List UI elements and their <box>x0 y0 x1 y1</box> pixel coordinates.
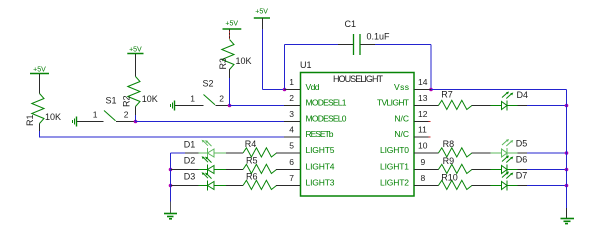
wire net LIGHT5 from bus to D1 <box>171 152 199 154</box>
wire S2 pin 2 to junction <box>216 105 230 107</box>
wire R10 to D7 <box>472 185 491 187</box>
wire R1 bottom lead <box>39 124 41 132</box>
switch S2 <box>190 79 224 105</box>
power +5V P2 above R2 <box>127 47 143 54</box>
wire bus to D2 <box>171 169 199 171</box>
junction D3/bus <box>169 184 173 188</box>
U1 pin 10 LIGHT0 <box>380 141 431 156</box>
wire R6 to U1 pin 7 <box>276 185 285 187</box>
svg-text:RESETb: RESETb <box>306 129 334 139</box>
resistor R2 <box>121 77 157 108</box>
wire net LIGHT2 to R10 <box>431 185 439 187</box>
svg-text:TVLIGHT: TVLIGHT <box>377 98 409 108</box>
resistor R1 <box>25 94 61 127</box>
wire R1 top lead <box>39 74 41 94</box>
svg-text:HOUSELIGHT: HOUSELIGHT <box>333 74 384 84</box>
svg-text:Vdd: Vdd <box>306 82 320 92</box>
junction D7/bus <box>565 184 569 188</box>
wire R2 bottom lead <box>135 107 137 122</box>
svg-text:4: 4 <box>289 125 294 135</box>
svg-text:LIGHT5: LIGHT5 <box>306 145 335 155</box>
svg-text:D3: D3 <box>184 172 196 182</box>
svg-text:3: 3 <box>289 109 294 119</box>
wire R7 to D4 <box>472 105 491 107</box>
svg-text:7: 7 <box>289 173 294 183</box>
U1 pin 11 N/C <box>394 125 430 140</box>
svg-text:U1: U1 <box>300 60 312 70</box>
svg-text:S1: S1 <box>106 96 117 106</box>
svg-text:+5V: +5V <box>33 67 46 74</box>
wire net MODESEL0 to U1 pin 3 <box>136 121 285 123</box>
U1 pin 5 LIGHT5 <box>285 141 335 156</box>
svg-text:R2: R2 <box>121 95 131 107</box>
svg-text:R3: R3 <box>218 58 228 70</box>
resistor R9 <box>438 156 472 174</box>
wire net LIGHT0 to R8 <box>431 152 439 154</box>
svg-text:6: 6 <box>289 157 294 167</box>
junction VDD / C1 left <box>283 88 287 92</box>
junction D6/bus <box>565 168 569 172</box>
LED D3 <box>184 172 226 191</box>
svg-text:LIGHT4: LIGHT4 <box>306 162 335 172</box>
wire R5 to U1 pin 6 <box>276 169 285 171</box>
LED D4 <box>491 90 529 111</box>
wire S1 pin 2 to junction <box>116 121 136 123</box>
resistor R4 <box>243 139 277 157</box>
wire C1 left branch <box>285 45 354 90</box>
wire D6 to bus <box>518 169 567 171</box>
svg-text:R8: R8 <box>443 139 455 149</box>
junction S1/R2 <box>134 120 138 124</box>
svg-text:R9: R9 <box>443 156 455 166</box>
U1 pin 14 Vss <box>394 77 431 92</box>
svg-text:1: 1 <box>289 77 294 87</box>
U1 pin 8 LIGHT2 <box>380 173 431 188</box>
svg-text:2: 2 <box>289 93 294 103</box>
svg-text:10: 10 <box>418 141 428 151</box>
svg-text:8: 8 <box>421 173 426 183</box>
junction D4/bus <box>565 104 569 108</box>
LED D6 <box>491 154 528 174</box>
wire R8 to D5 <box>472 152 491 154</box>
svg-text:+5V: +5V <box>129 47 142 54</box>
junction S2/R3 <box>228 104 232 108</box>
svg-text:LIGHT0: LIGHT0 <box>380 145 409 155</box>
capacitor C1 <box>345 19 391 55</box>
wire R2 top lead <box>135 54 137 77</box>
wire net VDD <box>263 18 285 90</box>
svg-text:9: 9 <box>421 157 426 167</box>
svg-text:R6: R6 <box>246 171 258 181</box>
svg-text:14: 14 <box>418 77 428 87</box>
svg-text:N/C: N/C <box>394 129 409 139</box>
wire R9 to D6 <box>472 169 491 171</box>
svg-text:S2: S2 <box>203 79 214 89</box>
wire net TVLIGHT to R7 <box>431 105 439 107</box>
U1 pin 1 Vdd <box>285 77 320 92</box>
svg-text:R1: R1 <box>25 114 35 126</box>
LED D7 <box>491 171 528 191</box>
junction D5/bus <box>565 151 569 155</box>
U1 pin 13 TVLIGHT <box>377 93 431 108</box>
svg-text:LIGHT1: LIGHT1 <box>380 162 409 172</box>
svg-text:10K: 10K <box>142 94 158 104</box>
ground GND3 left <box>164 202 177 219</box>
resistor R10 <box>438 173 472 190</box>
IC U1 body HOUSELIGHT <box>300 60 414 196</box>
svg-text:2: 2 <box>124 110 129 120</box>
LED D5 highlighted <box>491 138 528 158</box>
U1 pin 4 RESETb <box>284 125 334 140</box>
wire D2 to R5 <box>226 169 243 171</box>
U1 pin 2 MODESEL1 <box>284 93 347 108</box>
svg-text:D6: D6 <box>516 154 528 164</box>
wire S1 pin 1 <box>77 121 104 123</box>
svg-text:13: 13 <box>418 93 428 103</box>
wire S2 pin 1 <box>175 105 204 107</box>
svg-text:5: 5 <box>289 141 294 151</box>
wire net MODESEL1 to U1 pin 2 <box>230 105 285 107</box>
wire bus to D3 <box>171 185 199 187</box>
svg-text:D5: D5 <box>516 138 528 148</box>
resistor R5 <box>243 155 277 173</box>
svg-text:LIGHT3: LIGHT3 <box>306 178 335 188</box>
ground GND1 for S1 pin 1 <box>73 117 77 127</box>
wire net LIGHT1 to R9 <box>431 169 439 171</box>
power +5V P3 above R3 <box>223 21 242 30</box>
wire D1 to R4 <box>226 152 243 154</box>
svg-text:12: 12 <box>418 109 428 119</box>
wire D4 to bus <box>518 105 567 107</box>
wire net VSS top and right ground bus <box>431 90 567 209</box>
wire R3 bottom lead <box>229 69 231 106</box>
svg-text:D2: D2 <box>184 156 196 166</box>
junction C1 right / VSS <box>429 88 433 92</box>
svg-text:MODESEL0: MODESEL0 <box>306 114 347 124</box>
svg-text:+5V: +5V <box>255 9 268 16</box>
wire left ground bus <box>170 153 172 202</box>
svg-text:2: 2 <box>219 94 224 104</box>
svg-text:11: 11 <box>418 125 427 135</box>
resistor R7 <box>438 90 472 110</box>
wire D3 to R6 <box>226 185 243 187</box>
svg-text:D7: D7 <box>516 171 528 181</box>
svg-text:LIGHT2: LIGHT2 <box>380 178 409 188</box>
svg-text:R5: R5 <box>246 155 258 165</box>
ground GND4 right <box>561 208 575 224</box>
svg-text:0.1uF: 0.1uF <box>367 32 391 42</box>
resistor R3 <box>218 40 252 70</box>
wire C1 right branch <box>361 45 432 90</box>
U1 pin 9 LIGHT1 <box>380 157 431 172</box>
junction D2/bus <box>169 168 173 172</box>
svg-text:C1: C1 <box>345 19 357 29</box>
svg-text:R4: R4 <box>245 139 257 149</box>
resistor R6 <box>243 171 277 189</box>
ground GND2 for S2 pin 1 <box>171 101 175 111</box>
wire R3 top lead red <box>229 30 231 40</box>
switch S1 <box>93 96 129 121</box>
svg-text:N/C: N/C <box>394 114 409 124</box>
LED D1 highlighted <box>184 140 226 159</box>
svg-text:MODESEL1: MODESEL1 <box>306 98 347 108</box>
resistor R8 <box>438 139 472 157</box>
wire D5 to bus <box>518 152 567 154</box>
svg-text:10K: 10K <box>45 112 61 122</box>
svg-text:1: 1 <box>190 94 195 104</box>
svg-text:Vss: Vss <box>394 82 409 92</box>
U1 pin 3 MODESEL0 <box>284 109 347 124</box>
wire R4 to U1 pin 5 <box>276 152 285 154</box>
power +5V P1 above R1 <box>30 67 49 74</box>
svg-text:10K: 10K <box>236 56 252 66</box>
U1 pin 6 LIGHT4 <box>285 157 335 172</box>
U1 pin 12 N/C <box>394 109 430 124</box>
svg-text:R10: R10 <box>441 173 458 183</box>
svg-text:D4: D4 <box>517 90 529 100</box>
svg-text:1: 1 <box>93 110 98 120</box>
svg-text:+5V: +5V <box>225 21 238 28</box>
svg-text:D1: D1 <box>184 140 196 150</box>
U1 pin 7 LIGHT3 <box>285 173 335 188</box>
svg-text:R7: R7 <box>441 90 453 100</box>
power +5V P4 for U1 Vdd <box>254 9 270 18</box>
LED D2 <box>184 156 226 175</box>
wire net RESETb from R1 to U1 pin 4 <box>40 131 285 138</box>
wire D7 to bus <box>518 185 567 187</box>
